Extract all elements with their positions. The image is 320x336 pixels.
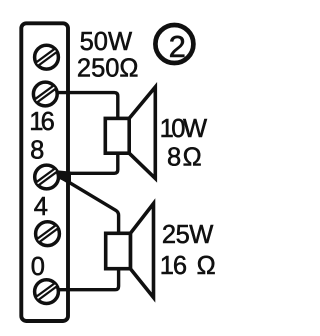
svg-text:25W: 25W xyxy=(162,221,213,249)
svg-text:8: 8 xyxy=(30,137,44,165)
svg-text:2: 2 xyxy=(169,29,186,64)
svg-text:10W: 10W xyxy=(160,115,207,143)
svg-text:0: 0 xyxy=(31,253,45,281)
svg-text:8Ω: 8Ω xyxy=(167,144,203,172)
svg-text:16Ω: 16Ω xyxy=(160,252,215,280)
svg-text:50W: 50W xyxy=(80,28,132,56)
svg-text:16: 16 xyxy=(29,108,54,136)
svg-text:250Ω: 250Ω xyxy=(77,54,139,82)
svg-text:4: 4 xyxy=(34,193,48,221)
